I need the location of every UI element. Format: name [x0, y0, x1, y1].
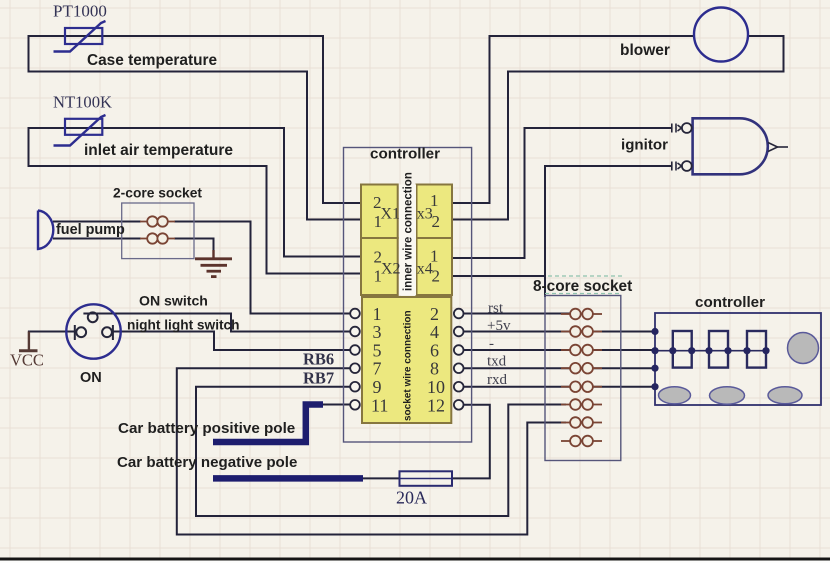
ignitor input marks top — [672, 124, 682, 133]
wire pin6 minus to 8-core row3 — [464, 349, 571, 351]
ignitor input bubble top — [682, 123, 692, 133]
svg-text:8: 8 — [430, 359, 439, 379]
svg-text:ignitor: ignitor — [621, 137, 668, 154]
wire ON switch to pin 3 — [84, 314, 350, 332]
wire X4 pin2 down to 8-core socket top — [544, 276, 546, 296]
svg-text:ON switch: ON switch — [139, 293, 208, 309]
8-core pair row3 — [561, 345, 602, 356]
ignitor gate U1 — [693, 118, 768, 174]
button ellipse 2 — [710, 387, 745, 405]
fuse 20A — [400, 471, 453, 486]
svg-text:rxd: rxd — [487, 372, 507, 388]
svg-text:night light switch: night light switch — [127, 318, 240, 333]
thick battery negative pole wire — [213, 475, 363, 482]
svg-text:inner wire connection: inner wire connection — [403, 172, 415, 291]
controller outer box — [344, 148, 472, 443]
digit display 1 — [673, 331, 692, 368]
svg-text:rst: rst — [488, 301, 504, 317]
svg-text:x4: x4 — [417, 261, 433, 278]
svg-text:inlet air temperature: inlet air temperature — [84, 142, 233, 159]
wire 8-core row2 to controller2 — [593, 331, 655, 333]
wire pin10 rxd to 8-core row5 — [464, 386, 571, 388]
svg-text:RB6: RB6 — [303, 350, 334, 369]
svg-text:+5v: +5v — [487, 318, 511, 334]
wire negative pole to fuse — [362, 477, 400, 479]
pin numbers even — [427, 304, 445, 415]
wire VCC to ON switch — [29, 331, 75, 333]
connector X1 — [361, 185, 398, 239]
wire 8-core row3 to controller2 — [593, 349, 655, 351]
2-core socket pair 1 — [140, 216, 175, 226]
wire 8-core row5 to controller2 — [593, 386, 655, 388]
X3 labels — [417, 191, 440, 231]
svg-text:Case temperature: Case temperature — [87, 52, 217, 69]
svg-text:7: 7 — [373, 359, 382, 379]
ground — [195, 250, 232, 277]
inner wire connection band — [399, 185, 416, 296]
wire pin 12 to fuse — [452, 405, 490, 479]
wire X4 pin1 to ignitor top input — [452, 128, 672, 258]
svg-text:1: 1 — [373, 304, 382, 324]
pin numbers odd — [371, 304, 388, 415]
svg-text:fuel pump: fuel pump — [56, 222, 125, 238]
svg-text:2: 2 — [430, 304, 439, 324]
wire night light switch to pin 5 — [113, 332, 350, 351]
wire X3 pin1 to blower feed — [452, 36, 694, 203]
blower motor — [694, 8, 748, 62]
wire 2-core pair1 to pin 1 — [175, 222, 350, 314]
svg-text:VCC: VCC — [10, 351, 44, 370]
wire RB7 pin9 to 8-core row6 — [196, 387, 565, 516]
svg-text:PT1000: PT1000 — [53, 2, 107, 21]
svg-text:txd: txd — [487, 354, 507, 370]
wire fuel pump bottom to 2-core socket pair2 — [54, 238, 140, 240]
X2 labels — [374, 248, 401, 286]
digit display 2 — [709, 331, 728, 368]
8-core socket selection dashes — [545, 276, 625, 294]
wire pin4 +5v to 8-core row2 — [464, 331, 571, 333]
svg-text:2-core socket: 2-core socket — [113, 186, 202, 201]
svg-text:ON: ON — [80, 370, 102, 386]
junction dots — [651, 328, 769, 390]
wire X4 pin2 to ignitor bottom input and 8-core socket — [452, 166, 672, 276]
wire blower return to X3 pin2 — [452, 36, 784, 220]
svg-text:RB7: RB7 — [303, 369, 334, 388]
8-core pair row4 — [561, 363, 602, 374]
wire case-temperature loop to X1 pin1 — [29, 36, 362, 220]
8-core pair row2 — [561, 326, 602, 337]
button ellipse 1 — [659, 387, 691, 404]
bottom border line — [0, 558, 830, 561]
ignitor input bubble bottom — [682, 161, 692, 171]
button ellipse 3 — [768, 387, 802, 404]
thermistor NT100K — [54, 115, 106, 146]
wire inlet-air loop to X2 pin1 — [29, 128, 362, 274]
wire battery positive to pin 11 — [322, 404, 350, 406]
ON switch connector — [66, 304, 120, 358]
wire NT100K top rail to X2 pin2 — [29, 128, 362, 257]
2-core socket box — [122, 203, 194, 259]
svg-text:8-core socket: 8-core socket — [533, 278, 632, 295]
svg-text:11: 11 — [371, 395, 388, 415]
connector X2 — [361, 238, 398, 295]
socket wire connection block — [362, 297, 451, 423]
connector X3 — [417, 185, 453, 239]
svg-text:NT100K: NT100K — [53, 93, 112, 112]
svg-text:9: 9 — [373, 377, 382, 397]
svg-text:5: 5 — [373, 341, 382, 361]
connector X4 — [417, 238, 453, 295]
svg-text:controller: controller — [370, 146, 440, 163]
ignitor output — [768, 143, 788, 152]
8-core socket box — [545, 296, 621, 461]
svg-text:Car battery negative pole: Car battery negative pole — [117, 454, 297, 471]
digit display 3 — [747, 331, 766, 368]
svg-text:x3: x3 — [417, 206, 433, 223]
svg-text:12: 12 — [427, 395, 445, 415]
svg-text:10: 10 — [427, 377, 445, 397]
svg-text:-: - — [489, 336, 494, 352]
wire 2-core pair2 to ground — [175, 239, 214, 253]
svg-text:3: 3 — [373, 322, 382, 342]
X4 labels — [417, 247, 440, 286]
fuel pump symbol — [38, 211, 53, 250]
svg-text:20A: 20A — [396, 488, 427, 508]
knob circle — [788, 333, 819, 364]
controller 2 box — [655, 313, 821, 405]
8-core pair row7 — [561, 417, 602, 428]
svg-text:X1: X1 — [381, 206, 401, 223]
8-core pair row1 — [561, 309, 602, 320]
8-core pair row5 — [561, 381, 602, 392]
wire 8-core row4 to controller2 — [593, 367, 655, 369]
svg-text:6: 6 — [430, 341, 439, 361]
wire pin8 txd to 8-core row4 — [464, 367, 571, 369]
8-core pair row8 — [561, 436, 602, 447]
svg-text:Car battery positive pole: Car battery positive pole — [118, 420, 295, 437]
2-core socket pair 2 — [140, 233, 175, 243]
pin circles right column — [454, 309, 464, 410]
wire pin2 rst to 8-core row1 — [464, 313, 571, 315]
8-core pair row6 — [561, 399, 602, 410]
wire PT1000 top rail to X1 pin2 — [29, 36, 362, 203]
8-core socket pairs — [561, 309, 602, 447]
svg-text:X2: X2 — [381, 261, 401, 278]
VCC power symbol — [19, 332, 38, 351]
thermistor PT1000 — [54, 21, 106, 52]
svg-text:socket wire connection: socket wire connection — [403, 310, 414, 421]
svg-text:controller: controller — [695, 294, 765, 311]
controller 2 bus line — [655, 350, 766, 352]
wire RB6 pin7 to 8-core row7 — [177, 368, 565, 534]
X1 labels — [373, 193, 400, 231]
ignitor input marks bottom — [672, 162, 682, 171]
svg-text:4: 4 — [430, 322, 439, 342]
wire fuel pump top to 2-core socket pair1 — [54, 221, 140, 223]
thick battery positive pole wire — [213, 405, 323, 443]
pin circles left column — [350, 309, 360, 410]
svg-text:blower: blower — [620, 42, 670, 59]
